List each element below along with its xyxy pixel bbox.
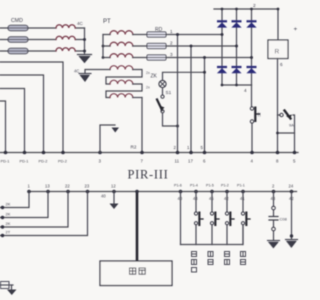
svg-text:40: 40 (101, 194, 106, 199)
contact JC (250, 107, 259, 124)
wire bridge leg 1 (221, 9, 223, 85)
diode D5 (231, 66, 241, 73)
ground stub t12 (110, 192, 119, 210)
diode D3 (246, 20, 256, 27)
svg-text:P1-5: P1-5 (206, 184, 214, 188)
wire feed to control box (136, 192, 139, 262)
svg-text:JC: JC (257, 112, 262, 117)
wire contact branch (278, 115, 295, 153)
svg-text:CMD: CMD (11, 18, 23, 24)
wire terminal 17 drop (190, 46, 192, 153)
svg-text:C08: C08 (280, 217, 288, 222)
svg-text:PT: PT (103, 19, 111, 25)
svg-text:R2: R2 (131, 145, 137, 150)
diode D4 (217, 66, 227, 73)
fuse RD3 (147, 55, 166, 60)
svg-text:4C: 4C (77, 21, 84, 26)
svg-text:PD-1: PD-1 (1, 159, 10, 164)
svg-text:3: 3 (170, 52, 173, 57)
svg-text:1: 1 (170, 29, 173, 34)
svg-text:P1-1: P1-1 (237, 184, 245, 188)
svg-text:+: + (294, 26, 298, 33)
svg-text:2K: 2K (6, 212, 11, 217)
ground input filter (78, 55, 92, 63)
winding PT P3 (110, 54, 133, 58)
wire phase1 to bridge (166, 34, 222, 36)
svg-text:PD-1: PD-1 (20, 159, 29, 164)
fuse RD1 (147, 32, 166, 37)
node link left (276, 132, 279, 135)
node bridge bot1 (221, 84, 224, 87)
node bus1 t17 (189, 151, 193, 155)
svg-text:2T: 2T (6, 230, 11, 235)
svg-text:P1-2: P1-2 (221, 184, 229, 188)
svg-text:2x: 2x (146, 86, 150, 90)
fuse FU1 (6, 25, 30, 31)
node PT primary mid (102, 45, 105, 48)
wire phase B input (0, 39, 85, 41)
node phase1 tap (176, 33, 179, 36)
svg-text:4C: 4C (74, 69, 79, 74)
node arrester C (83, 50, 86, 53)
wire lamp to switch (162, 88, 164, 95)
label signal glyphs col2 (208, 252, 213, 265)
ground capacitor (268, 241, 280, 249)
node PT primary low (102, 56, 105, 59)
node bridge bot2 (235, 84, 238, 87)
wire rail to box R (277, 9, 279, 40)
contact column t44 (194, 192, 203, 245)
svg-text:ZK: ZK (151, 74, 158, 80)
wire phase C input (0, 50, 85, 52)
inductor L2 (56, 36, 75, 39)
switch S1 (157, 95, 165, 113)
node bridge top1 (221, 8, 224, 11)
resistor box R (268, 40, 288, 59)
node bus2 t24 (290, 190, 294, 194)
svg-text:22: 22 (65, 184, 70, 189)
winding PT S2 (110, 80, 133, 84)
label signal glyphs col3 (225, 252, 230, 265)
node bus1 t6 (203, 151, 207, 155)
node bus1 PD-1a (4, 151, 8, 155)
winding PT P2 (110, 42, 133, 46)
svg-text:17: 17 (188, 159, 193, 164)
node bus1 PD-2b (61, 151, 65, 155)
terminal lead K3 (0, 192, 68, 228)
contact column t45 (210, 192, 219, 245)
node bus2 t12 (112, 190, 116, 194)
contact column t41 (241, 192, 250, 245)
wire t24 drop (291, 192, 293, 240)
node switch tap (176, 125, 179, 128)
wire tap A to bus (0, 62, 63, 153)
node lead4 (1, 234, 4, 237)
capacitor branch t48 (272, 192, 276, 241)
wire ground tap t3 (100, 125, 115, 153)
node bus1 t4 (250, 151, 254, 155)
node rail box (277, 8, 280, 11)
wire terminal 11 drop (177, 35, 179, 153)
wire S1 left to ground (85, 70, 110, 74)
node bus2 t13 (46, 190, 50, 194)
diode D2 (231, 20, 241, 27)
svg-text:PD-2: PD-2 (39, 159, 48, 164)
node bus2 t48 (272, 190, 276, 194)
wire phase3 to bridge (166, 57, 252, 59)
label signal glyphs col4 (241, 252, 246, 265)
wire terminal 6 drop (204, 58, 206, 153)
wire rectifier minus drop (251, 85, 254, 153)
node lead2 (1, 216, 4, 219)
wire phase2 to bridge (166, 45, 237, 47)
node bridge in1 (221, 33, 224, 36)
svg-text:S1: S1 (166, 90, 172, 95)
svg-text:2K: 2K (6, 221, 11, 226)
node lamp branch join (203, 71, 206, 74)
wire lamp top (163, 72, 205, 80)
node bus2 t40 (179, 190, 183, 194)
control box (100, 261, 172, 286)
wire arrester common (84, 28, 86, 54)
terminal lead K1 (0, 192, 29, 208)
wire tap C to bus (0, 89, 25, 153)
earth lead bottom left (0, 282, 17, 296)
ground t24 (286, 240, 298, 248)
winding PT S1 (110, 66, 133, 70)
svg-text:2: 2 (170, 41, 173, 46)
node bridge top2 (235, 8, 238, 11)
svg-text:PD-2: PD-2 (58, 159, 67, 164)
svg-text:PIR-III: PIR-III (128, 168, 169, 182)
fuse RD2 (147, 43, 166, 48)
ground PT secondary (79, 74, 91, 82)
wire bridge top rail (214, 8, 278, 10)
node bus2 t42 (225, 190, 229, 194)
svg-text:23: 23 (85, 184, 90, 189)
node bus2 t23 (86, 190, 90, 194)
contact column t40 plain (180, 192, 182, 245)
node bridge in2 (235, 45, 238, 48)
wire bridge leg 2 (236, 9, 238, 85)
label control box glyphs (130, 268, 146, 274)
node bus2 t41 (241, 190, 245, 194)
fuse FU2 (6, 37, 30, 43)
capacitor C08 (269, 217, 278, 221)
node bus1 t8 (276, 151, 280, 155)
wire box R down (277, 59, 279, 153)
svg-text:R: R (275, 49, 280, 56)
wire contact bottom rail (181, 225, 244, 245)
node bridge in3 (250, 56, 253, 59)
node bus2 t22 (66, 190, 70, 194)
svg-text:4: 4 (244, 88, 247, 93)
svg-text:9A: 9A (289, 123, 294, 128)
svg-text:13: 13 (45, 184, 50, 189)
node lead3 (1, 225, 4, 228)
wire bridge bottom rail (222, 84, 252, 86)
bus PIR bottom (28, 191, 297, 193)
fuse FU3 (6, 48, 30, 54)
node bus1 t7 (140, 151, 144, 155)
wire S3 to bus terminal 7 (141, 98, 143, 153)
winding PT P1 (110, 31, 133, 35)
diode D1 (217, 20, 227, 27)
node bus2 t1 (27, 190, 31, 194)
svg-text:P1-6: P1-6 (174, 184, 182, 188)
wire bridge leg 3 (251, 9, 253, 85)
lamp ZK (159, 80, 166, 87)
svg-text:2: 2 (253, 3, 256, 9)
node bus1 PD-2a (42, 151, 46, 155)
node arrester B (83, 38, 86, 41)
diode D6 (246, 66, 256, 73)
node bus1 t5 (293, 151, 297, 155)
node bus2 t45 (210, 190, 214, 194)
wire PT primary bus (102, 35, 104, 58)
winding PT S3 (110, 94, 133, 98)
contact QA (280, 111, 292, 120)
svg-text:P1-4: P1-4 (190, 184, 198, 188)
node lead1 (1, 206, 4, 209)
node phase3 tap (203, 56, 206, 59)
wire phase A input (0, 27, 85, 29)
node phase2 tap (190, 45, 193, 48)
terminal lead K4 (0, 192, 88, 236)
node t24 low (290, 234, 293, 237)
ground arrow t3 (112, 128, 120, 133)
terminal lead K2 (0, 192, 48, 218)
svg-text:2x: 2x (146, 71, 150, 75)
svg-text:12: 12 (111, 184, 116, 189)
node bus2 t44 (194, 190, 198, 194)
svg-text:2K: 2K (6, 202, 11, 207)
wire tap B to bus (0, 75, 44, 153)
inductor L1 (56, 25, 75, 28)
node bus1 PD-1b (23, 151, 27, 155)
node feed (135, 190, 139, 194)
node bus1 t11 (176, 151, 180, 155)
wire parallel link (278, 132, 295, 134)
bus PIR top (0, 152, 298, 154)
label signal glyphs col1 (192, 252, 197, 273)
inductor L3 (56, 48, 75, 51)
wire switch to bus2 tap (163, 113, 178, 126)
svg-text:24: 24 (289, 184, 294, 189)
wire tap D to bus (0, 101, 6, 153)
svg-text:6: 6 (280, 62, 283, 67)
svg-text:11: 11 (175, 159, 180, 164)
node bus1 t3 (98, 151, 102, 155)
node bridge top3 (250, 8, 253, 11)
contact column t42 (225, 192, 234, 245)
